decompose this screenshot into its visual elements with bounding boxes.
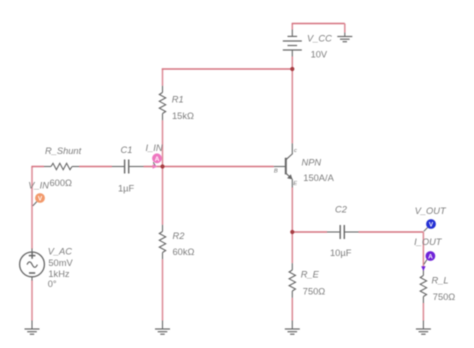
- svg-text:15kΩ: 15kΩ: [172, 111, 194, 121]
- svg-text:A: A: [428, 254, 433, 261]
- svg-text:I_IN: I_IN: [146, 143, 163, 153]
- svg-text:1kHz: 1kHz: [48, 269, 70, 279]
- svg-text:1µF: 1µF: [118, 184, 135, 194]
- svg-text:V_OUT: V_OUT: [415, 206, 447, 216]
- svg-text:R_Shunt: R_Shunt: [45, 146, 82, 156]
- svg-text:0°: 0°: [48, 279, 57, 289]
- svg-text:V_IN: V_IN: [28, 181, 49, 191]
- svg-text:NPN: NPN: [302, 158, 322, 168]
- svg-text:600Ω: 600Ω: [50, 178, 73, 188]
- svg-text:A: A: [155, 156, 160, 163]
- svg-text:V: V: [38, 196, 43, 203]
- svg-text:50mV: 50mV: [48, 258, 73, 268]
- svg-text:V: V: [429, 222, 434, 229]
- svg-text:E: E: [293, 181, 297, 187]
- svg-text:R_L: R_L: [432, 276, 449, 286]
- svg-text:I_OUT: I_OUT: [414, 237, 443, 247]
- svg-text:C2: C2: [335, 205, 348, 215]
- svg-text:V_AC: V_AC: [48, 247, 73, 257]
- svg-text:c: c: [294, 148, 297, 154]
- svg-text:10V: 10V: [311, 50, 328, 60]
- svg-text:R2: R2: [173, 231, 186, 241]
- svg-text:750Ω: 750Ω: [433, 292, 456, 302]
- svg-text:V_CC: V_CC: [307, 34, 332, 44]
- svg-text:B: B: [274, 168, 278, 174]
- svg-text:R_E: R_E: [301, 270, 320, 280]
- svg-text:R1: R1: [172, 95, 184, 105]
- svg-text:C1: C1: [121, 145, 133, 155]
- svg-text:750Ω: 750Ω: [303, 287, 326, 297]
- svg-text:60kΩ: 60kΩ: [173, 247, 195, 257]
- svg-text:10µF: 10µF: [330, 248, 352, 258]
- svg-text:150A/A: 150A/A: [303, 173, 334, 183]
